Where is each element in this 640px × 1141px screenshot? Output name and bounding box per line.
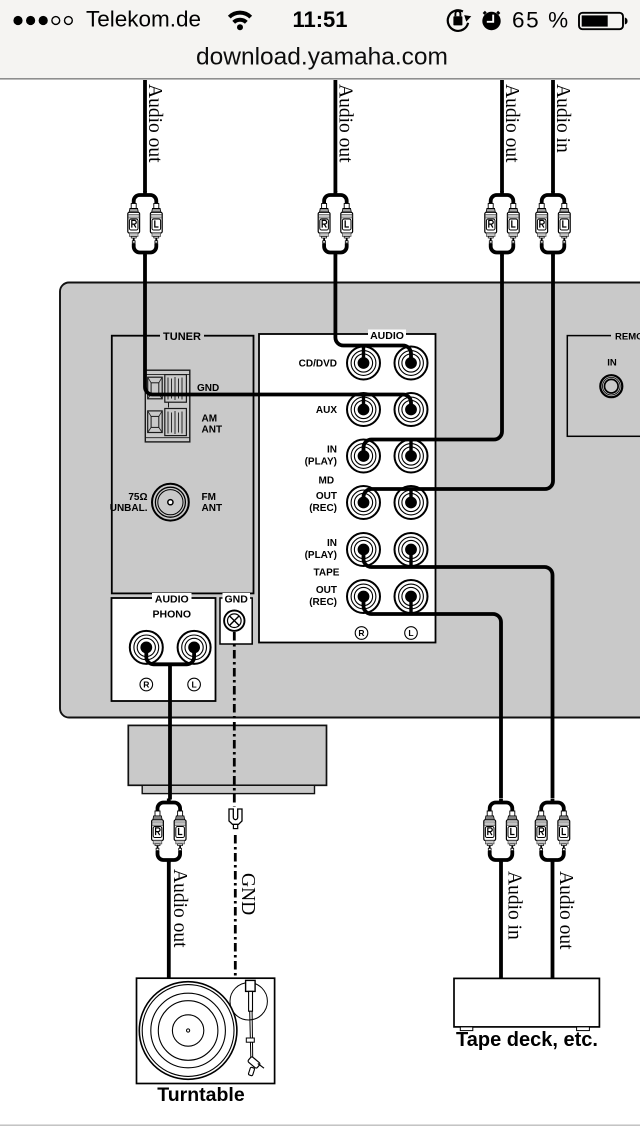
TUNER label	[160, 330, 204, 341]
status + url bar background	[0, 0, 640, 79]
svg-text:REMOTE: REMOTE	[615, 332, 640, 343]
signal strength dots	[13, 16, 72, 25]
GND box label	[223, 593, 251, 604]
svg-text:AUDIO: AUDIO	[155, 594, 189, 606]
alarm clock icon	[482, 12, 500, 30]
svg-text:L: L	[408, 628, 413, 638]
tonearm pivot	[246, 980, 256, 991]
svg-text:Turntable: Turntable	[157, 1084, 245, 1106]
svg-text:GND: GND	[225, 594, 249, 606]
svg-text:TAPE: TAPE	[314, 568, 340, 579]
GND box	[220, 598, 252, 644]
wire: cable3 to MD IN	[500, 80, 504, 192]
MD IN(PLAY) jacks	[347, 440, 380, 473]
turntable box	[137, 978, 275, 1083]
tonearm tube lower	[250, 1011, 253, 1057]
GND spade lug	[229, 809, 242, 829]
battery icon	[579, 13, 628, 29]
svg-text:65 %: 65 %	[512, 8, 570, 33]
TUNER section box	[112, 336, 254, 594]
circled L column label	[405, 627, 418, 640]
svg-text:AUDIO: AUDIO	[370, 330, 404, 342]
tonearm tube upper	[249, 991, 253, 1011]
TAPE IN(PLAY) jacks	[347, 533, 380, 566]
svg-text:ANT: ANT	[202, 425, 223, 436]
svg-text:(REC): (REC)	[309, 503, 337, 514]
wire: TAPE IN right drop	[409, 550, 412, 568]
svg-text:MD: MD	[319, 476, 335, 487]
wire: TAPE IN to tape deck audio out	[364, 550, 553, 799]
svg-text:Tape deck, etc.: Tape deck, etc.	[456, 1029, 598, 1051]
svg-text:Audio out: Audio out	[501, 84, 522, 163]
MD OUT(REC) jacks	[347, 486, 380, 519]
CD/DVD jacks	[347, 347, 380, 380]
svg-text:Audio out: Audio out	[555, 871, 576, 950]
wire: TAPE OUT to tape deck audio in	[364, 597, 502, 799]
svg-text:GND: GND	[237, 873, 258, 915]
svg-text:Audio out: Audio out	[334, 84, 355, 163]
svg-text:IN: IN	[327, 445, 337, 456]
svg-text:Audio out: Audio out	[144, 84, 165, 163]
REMOTE label	[611, 331, 640, 341]
GND dash-dot wire lower	[234, 835, 237, 976]
svg-text:download.yamaha.com: download.yamaha.com	[196, 44, 448, 71]
wire: tape deck audio in lower	[499, 863, 503, 980]
wire: MD IN right drop	[409, 440, 412, 457]
wire: AUX left drop	[362, 395, 365, 410]
svg-text:R: R	[358, 628, 364, 638]
RCA pair: tape audio out	[535, 799, 569, 864]
wire: MD OUT right drop	[409, 489, 412, 503]
wire: cable1 to AUX	[143, 80, 147, 192]
PHONO section box	[112, 598, 216, 701]
svg-text:Telekom.de: Telekom.de	[86, 7, 201, 32]
headshell	[247, 1056, 260, 1069]
svg-text:11:51: 11:51	[292, 7, 347, 32]
tonearm clip	[246, 1038, 254, 1042]
finger lift	[258, 1064, 264, 1069]
svg-text:ANT: ANT	[202, 503, 223, 514]
REMOTE CONTROL section box	[567, 336, 640, 437]
wire: cable2 to CD/DVD	[333, 80, 337, 192]
svg-text:GND: GND	[197, 383, 219, 394]
url bar bottom separator	[0, 78, 640, 80]
svg-text:(PLAY): (PLAY)	[305, 457, 337, 468]
svg-text:Audio in: Audio in	[504, 871, 525, 940]
receiver rear panel	[60, 283, 640, 718]
svg-text:PHONO: PHONO	[153, 609, 192, 621]
remote minijack	[600, 375, 622, 397]
svg-text:(REC): (REC)	[309, 597, 337, 608]
wire: CD/DVD left drop	[362, 346, 365, 364]
svg-text:AUX: AUX	[316, 405, 337, 416]
wire: PHONO jacks junction	[146, 647, 194, 664]
PHONO circled R	[140, 678, 153, 691]
AUDIO label	[368, 330, 406, 341]
RCA pair: cable3	[485, 191, 519, 256]
AUX jacks	[347, 393, 380, 426]
tape deck left foot	[460, 1027, 473, 1031]
turntable platter	[139, 982, 237, 1080]
wire: PHONO plugs to turntable	[167, 863, 171, 980]
svg-text:IN: IN	[327, 538, 337, 549]
RCA pair: tape audio in	[484, 799, 518, 864]
tonearm rest circle	[230, 983, 267, 1020]
RCA pair: cable2	[318, 191, 352, 256]
RCA pair: cable4	[536, 191, 570, 256]
svg-text:TUNER: TUNER	[163, 331, 201, 343]
tape deck right foot	[577, 1027, 590, 1031]
GND screw terminal	[224, 611, 244, 631]
RCA pair: phono cable	[152, 799, 186, 864]
GND dash-dot wire upper	[233, 632, 236, 807]
RCA pair: cable1	[128, 191, 162, 256]
AM antenna terminal block	[145, 370, 190, 442]
receiver pedestal	[128, 725, 326, 785]
svg-text:(PLAY): (PLAY)	[305, 550, 337, 561]
svg-text:L: L	[191, 680, 196, 690]
PHONO circled L	[188, 678, 201, 691]
svg-text:UNBAL.: UNBAL.	[110, 503, 148, 514]
wire: tape deck audio out lower	[551, 863, 555, 980]
svg-text:OUT: OUT	[316, 585, 337, 596]
svg-text:AM: AM	[202, 414, 218, 425]
wire: TAPE OUT right drop	[409, 597, 412, 615]
svg-text:R: R	[143, 680, 149, 690]
PHONO jacks	[130, 631, 163, 664]
svg-text:Audio out: Audio out	[169, 869, 190, 948]
svg-text:OUT: OUT	[316, 491, 337, 502]
FM antenna connector	[152, 484, 189, 521]
svg-text:CD/DVD: CD/DVD	[299, 359, 337, 370]
wifi icon	[229, 13, 250, 31]
AUDIO section box	[259, 334, 436, 643]
svg-text:75Ω: 75Ω	[128, 492, 147, 503]
wire: cable4 to MD OUT	[551, 80, 555, 192]
svg-text:IN: IN	[607, 358, 617, 369]
circled R column label	[355, 627, 368, 640]
svg-text:FM: FM	[202, 492, 216, 503]
TAPE OUT(REC) jacks	[347, 580, 380, 613]
pedestal base strip	[142, 785, 314, 793]
svg-text:Audio in: Audio in	[552, 84, 573, 153]
rotation lock icon	[448, 10, 472, 31]
tape deck box	[454, 978, 599, 1027]
stylus	[248, 1067, 255, 1076]
PHONO AUDIO label	[152, 593, 192, 604]
wire: PHONO down to plugs	[168, 664, 172, 799]
bottom hairline	[0, 1125, 640, 1126]
